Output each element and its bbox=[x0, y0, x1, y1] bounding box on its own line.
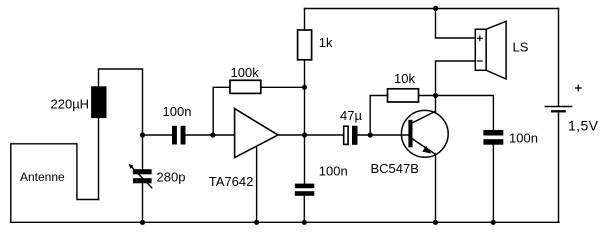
wire 100k right lead bbox=[261, 86, 305, 88]
svg-text:220µH: 220µH bbox=[51, 97, 90, 112]
resistor R1 100k bbox=[230, 80, 261, 93]
wire antenna lead-in bbox=[11, 144, 99, 223]
wire 47µ to transistor base bbox=[358, 134, 409, 136]
transistor Q1 BC547B bbox=[401, 110, 448, 157]
junction node ground TA7642 bbox=[254, 220, 259, 225]
svg-text:Antenne: Antenne bbox=[20, 170, 65, 184]
wire TA7642 output bbox=[278, 134, 344, 136]
wire collector node to right 100n cap bbox=[436, 96, 494, 131]
junction node ground right cap bbox=[491, 220, 496, 225]
resistor R2 1k bbox=[298, 30, 312, 60]
wire varcap bottom to ground rail bbox=[142, 183, 144, 222]
capacitor C4 47µ electrolytic bbox=[344, 126, 358, 145]
wire tank to series cap bbox=[143, 134, 173, 136]
wire 1k bottom down to mid 100n cap bbox=[304, 60, 306, 185]
svg-text:1k: 1k bbox=[319, 35, 333, 50]
capacitor C2 100n series bbox=[172, 126, 186, 145]
wire TA7642 ground pin bbox=[256, 146, 258, 222]
svg-text:47µ: 47µ bbox=[340, 108, 362, 123]
svg-text:100n: 100n bbox=[163, 104, 192, 119]
capacitor C3 100n mid bbox=[295, 184, 315, 196]
wire speaker plus lead bbox=[436, 9, 476, 39]
junction node 47µ/10k bbox=[368, 132, 373, 137]
svg-text:100n: 100n bbox=[319, 164, 348, 179]
wire mid 100n cap to ground rail bbox=[303, 196, 305, 223]
svg-text:TA7642: TA7642 bbox=[209, 174, 254, 189]
wire 1k top to rail bbox=[304, 9, 306, 31]
wire battery negative to ground rail bbox=[558, 112, 560, 223]
wire speaker minus lead to collector node bbox=[436, 61, 476, 96]
junction node ground mid cap bbox=[302, 220, 307, 225]
wire 10k right lead to collector node bbox=[419, 95, 436, 97]
svg-text:280p: 280p bbox=[157, 170, 186, 185]
wire 47µ output to 10k left lead bbox=[370, 96, 387, 136]
junction node feedback/input bbox=[210, 132, 215, 137]
svg-text:100k: 100k bbox=[231, 65, 260, 80]
inductor L1 220µH bbox=[91, 86, 106, 118]
variable capacitor arrow bbox=[129, 164, 153, 189]
svg-text:10k: 10k bbox=[394, 71, 415, 86]
wire top supply rail bbox=[305, 8, 559, 10]
resistor R3 10k bbox=[388, 89, 419, 102]
svg-text:100n: 100n bbox=[509, 131, 538, 146]
junction node 1k/100k bbox=[302, 85, 307, 90]
op-amp U1 TA7642 triangle bbox=[235, 109, 278, 158]
battery BT1 1,5V bbox=[545, 107, 573, 112]
speaker minus mark bbox=[477, 60, 483, 62]
wire ground rail bbox=[11, 221, 559, 223]
wire feedback node vertical bbox=[213, 87, 230, 135]
speaker plus mark bbox=[477, 35, 483, 41]
variable capacitor C1 280p plates bbox=[133, 169, 152, 183]
svg-text:LS: LS bbox=[513, 40, 529, 55]
battery plus mark bbox=[575, 85, 582, 92]
junction node top rail/speaker bbox=[433, 6, 438, 11]
junction node output bbox=[302, 132, 307, 137]
wire inductor bottom bbox=[98, 118, 100, 200]
speaker LS bbox=[475, 21, 506, 79]
junction node tank/input bbox=[140, 132, 145, 137]
svg-text:BC547B: BC547B bbox=[371, 161, 419, 176]
wire battery positive to rail bbox=[558, 9, 560, 107]
junction node ground varcap bbox=[140, 220, 145, 225]
junction node collector bbox=[433, 93, 438, 98]
wire series cap to TA7642 input bbox=[186, 134, 235, 136]
wire inductor top loop bbox=[99, 69, 143, 170]
junction node ground emitter bbox=[433, 220, 438, 225]
wire emitter to ground rail bbox=[435, 154, 437, 222]
capacitor C5 100n right bbox=[483, 130, 503, 145]
svg-text:1,5V: 1,5V bbox=[568, 117, 599, 133]
wire right 100n cap to ground rail bbox=[492, 145, 494, 223]
wire collector riser bbox=[435, 96, 437, 112]
